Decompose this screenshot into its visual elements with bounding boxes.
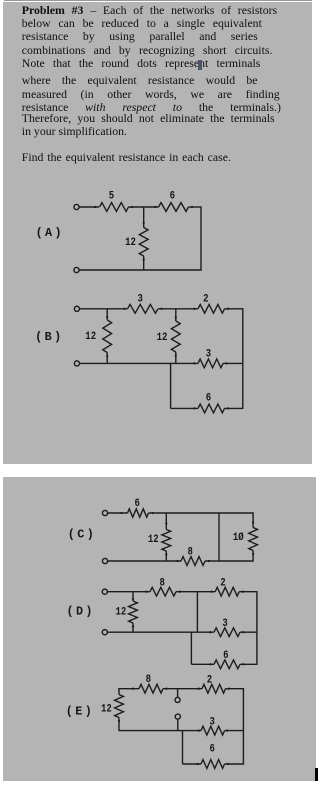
wire B row2 right (223, 362, 243, 364)
wire B top middle (158, 308, 198, 310)
svg-text:12: 12 (157, 332, 168, 344)
junction dot C R8 left (176, 560, 178, 562)
resistor 3 (D) (214, 628, 240, 637)
junction dot D R12 top (132, 598, 134, 600)
wire B left vertical lower (106, 353, 108, 364)
wire C top-left lead (108, 512, 128, 514)
resistor 8 (C) (181, 557, 205, 566)
terminal A-bottom (74, 267, 79, 272)
wire D left vertical upper (132, 592, 134, 601)
wire E row2 right (225, 730, 244, 732)
wire C right edge lower (252, 551, 254, 562)
junction dot E R12 bottom (118, 720, 120, 722)
svg-text:6: 6 (135, 498, 141, 510)
wire C top middle (149, 512, 254, 514)
text cursor mark bottom-right (315, 768, 318, 782)
svg-text:3: 3 (222, 618, 228, 630)
junction dot D R6 right (242, 663, 244, 665)
junction dot A R5 right (131, 206, 133, 208)
junction dot B R6 right (227, 407, 229, 409)
wire C mid vertical upper (165, 513, 167, 530)
wire A top-right (189, 206, 202, 208)
wire E left edge upper (118, 688, 120, 694)
wire B mid vertical upper (175, 309, 177, 321)
svg-text:(A): (A) (36, 226, 64, 240)
junction dot A R12 top (143, 222, 145, 224)
svg-text:1Ø: 1Ø (233, 532, 244, 544)
svg-text:5: 5 (109, 190, 115, 202)
junction dot B R3a left (123, 308, 125, 310)
page 1 scanned sheet background (3, 2, 312, 464)
wire C mid vertical lower (165, 551, 167, 561)
wire D left vertical lower (132, 623, 134, 632)
resistor 8 (D) (150, 587, 176, 596)
junction dot B R12b bottom (175, 354, 177, 356)
resistor 2 (D) (215, 587, 239, 596)
wire C right edge upper (252, 512, 254, 527)
terminal E-1 (175, 697, 180, 702)
wire A right edge (200, 206, 202, 270)
svg-text:8: 8 (146, 674, 152, 686)
resistor 6 (B) (198, 404, 225, 413)
wire A top-left lead (79, 206, 99, 208)
resistor 12 left (B) (103, 320, 112, 353)
svg-text:6: 6 (206, 393, 212, 405)
svg-text:8: 8 (160, 578, 166, 590)
wire B top-left lead (80, 308, 128, 310)
resistor 2 (E) (202, 684, 226, 693)
junction dot D R3 right (242, 631, 244, 633)
resistor 3 bottom (B) (198, 359, 223, 368)
resistor 12 (E) (115, 695, 124, 718)
junction dot E R3 left (198, 729, 200, 731)
wire A top middle (129, 206, 159, 208)
wire E left edge lower (118, 718, 120, 732)
wire D right edge (256, 591, 258, 664)
svg-text:3: 3 (210, 716, 216, 728)
junction dot E R6 right (227, 763, 229, 765)
junction dot C R10 bottom (252, 553, 254, 555)
junction dot C R6 right (152, 512, 154, 514)
resistor 6 (A) (159, 203, 189, 212)
page 2 scanned sheet background (3, 477, 316, 781)
wire B drop to 6 loop (170, 363, 172, 408)
junction dot B R2 right (227, 308, 229, 310)
svg-text:12: 12 (101, 703, 112, 715)
wire E right edge (242, 688, 244, 764)
wire E top middle (163, 688, 202, 690)
junction dot E R3 right (226, 729, 228, 731)
selection highlight box after word represent (198, 60, 202, 69)
terminal D-top (102, 589, 107, 594)
terminal C-top (102, 510, 107, 515)
svg-text:3: 3 (138, 293, 144, 305)
wire D bottom from terminal (108, 631, 215, 633)
resistor 6 (C) (128, 509, 149, 517)
junction dot B R3b left (193, 362, 195, 364)
junction dot E R8 left (132, 688, 134, 690)
svg-text:12: 12 (85, 331, 96, 343)
wire E 6-row right (225, 763, 245, 765)
wire D mid vertical (196, 592, 198, 633)
terminal E-2 (175, 714, 180, 719)
svg-text:3: 3 (206, 349, 212, 361)
svg-text:12: 12 (125, 237, 136, 249)
junction dot A R6 right (191, 206, 193, 208)
resistor 2 (B) (198, 304, 225, 313)
wire E row2 from R12 (119, 730, 201, 732)
wire C bottom-left (108, 560, 181, 562)
junction dot B R3b right (225, 362, 227, 364)
svg-text:6: 6 (210, 744, 216, 756)
junction dot B R12a bottom (106, 355, 108, 357)
junction dot B R3a right (160, 308, 162, 310)
terminal B-top (74, 306, 79, 311)
wire B left vertical upper (106, 309, 108, 320)
terminal C-bottom (102, 558, 107, 563)
wire E 6-row left (183, 763, 202, 765)
svg-text:2: 2 (207, 675, 213, 687)
wire D 6-row right (240, 663, 258, 665)
junction dot E R2 left (198, 688, 200, 690)
junction dot D R2 right (242, 591, 244, 593)
junction dot B R2 left (193, 308, 195, 310)
wire D drop to 6 loop (190, 632, 192, 664)
junction dot B R12b top (175, 316, 177, 318)
junction dot C R12 bottom (165, 553, 167, 555)
wire B right edge (242, 308, 244, 408)
resistor 12 right (B) (171, 321, 180, 352)
wire D row2 right (240, 631, 257, 633)
junction dot C R8 right (208, 560, 210, 562)
junction dot D R8 right (179, 591, 181, 593)
problem statement paragraph (22, 4, 312, 138)
svg-text:(B): (B) (35, 330, 63, 344)
resistor 3 (E) (201, 726, 225, 735)
junction dot D R6 left (209, 663, 211, 665)
wire A bottom (79, 269, 202, 271)
resistor 10 (C) (249, 528, 258, 551)
wire B 6-row right (225, 407, 244, 409)
svg-text:2: 2 (220, 578, 226, 590)
junction dot C R10 top (252, 521, 254, 523)
terminal A-top (74, 204, 79, 209)
wire D top-left lead (108, 591, 151, 593)
wire E drop to 6 loop (182, 731, 184, 764)
resistor 3 top (B) (128, 304, 158, 313)
junction dot B R6 left (193, 407, 195, 409)
junction dot C R12 top (165, 522, 167, 524)
svg-text:6: 6 (170, 190, 176, 202)
wire B bottom from terminal (80, 362, 198, 364)
svg-text:6: 6 (223, 650, 229, 662)
svg-text:(E): (E) (66, 705, 94, 719)
resistor 6 (D) (214, 660, 240, 669)
wire B top-right (225, 308, 243, 310)
scan 1 top border line (4, 0, 313, 1)
wire D 6-row left (191, 663, 214, 665)
junction dot A R6 left (154, 206, 156, 208)
wire E terminal2 stub (177, 719, 179, 731)
junction dot E R2 right (228, 688, 230, 690)
svg-text:8: 8 (188, 546, 194, 558)
resistor 12 (C) (162, 530, 171, 551)
wire D top middle (176, 591, 215, 593)
junction dot E R6 left (196, 763, 198, 765)
junction dot D R2 left (210, 591, 212, 593)
svg-text:12: 12 (148, 534, 159, 546)
wire A mid vertical upper (143, 207, 145, 228)
resistor 12 (A) (139, 228, 148, 257)
wire E top-right (226, 688, 244, 690)
junction dot D R8 left (145, 591, 147, 593)
resistor 12 (D) (129, 601, 138, 623)
wire E terminal1 stub (177, 689, 179, 698)
junction dot A R12 bottom (143, 258, 145, 260)
wire C short-circuit vertical (218, 513, 220, 561)
junction dot C R6 left (120, 512, 122, 514)
terminal D-bottom (102, 630, 107, 635)
wire E top-left (118, 688, 139, 690)
svg-text:(C): (C) (68, 527, 96, 541)
resistor 6 (E) (201, 760, 225, 769)
svg-text:(D): (D) (66, 604, 94, 618)
wire A mid vertical lower (143, 256, 145, 270)
wire B 6-row left (171, 407, 198, 409)
wire C bottom-right (205, 560, 253, 562)
svg-text:2: 2 (203, 293, 209, 305)
terminal B-bottom (74, 361, 79, 366)
find-the-equivalent-resistance line (22, 150, 231, 165)
junction dot D R12 bottom (132, 625, 134, 627)
svg-text:12: 12 (116, 607, 127, 619)
junction dot A R5 left (94, 206, 96, 208)
resistor 8 (E) (139, 684, 163, 693)
junction dot D R3 left (209, 631, 211, 633)
resistor 5 (100, 203, 129, 212)
wire B mid vertical lower (175, 352, 177, 363)
junction dot E R8 right (165, 688, 167, 690)
junction dot B R12a top (106, 316, 108, 318)
wire D top-right (239, 591, 257, 593)
